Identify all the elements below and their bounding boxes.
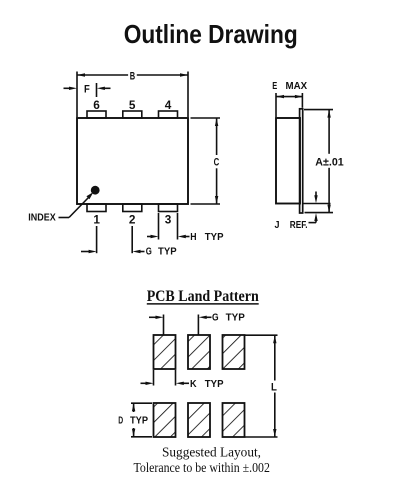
svg-text:H: H [190,232,196,243]
svg-text:2: 2 [129,212,136,226]
svg-text:TYP: TYP [205,232,224,243]
svg-text:G: G [212,313,219,324]
svg-text:3: 3 [165,212,172,226]
svg-text:J: J [275,220,280,231]
svg-text:4: 4 [165,98,172,112]
svg-text:C: C [214,156,220,168]
svg-text:TYP: TYP [226,313,246,324]
svg-text:L: L [271,381,277,393]
svg-text:Suggested Layout,: Suggested Layout, [162,444,261,459]
svg-text:5: 5 [129,98,136,112]
svg-text:K: K [190,379,197,390]
svg-text:TYP: TYP [158,246,177,257]
svg-text:INDEX: INDEX [28,212,56,223]
svg-text:E: E [272,81,277,92]
svg-text:A±.01: A±.01 [315,156,343,168]
svg-text:TYP: TYP [130,415,148,426]
svg-text:1: 1 [93,212,100,226]
svg-text:Outline Drawing: Outline Drawing [124,19,298,49]
svg-text:Tolerance to be within ±.002: Tolerance to be within ±.002 [134,460,270,475]
svg-text:PCB Land Pattern: PCB Land Pattern [147,288,259,305]
svg-text:MAX: MAX [286,81,308,92]
svg-text:G: G [146,246,152,257]
svg-text:6: 6 [93,98,100,112]
svg-text:F: F [84,83,90,95]
svg-text:B: B [130,70,136,82]
svg-text:TYP: TYP [205,379,224,390]
svg-text:D: D [118,415,123,426]
svg-text:REF.: REF. [290,220,308,231]
